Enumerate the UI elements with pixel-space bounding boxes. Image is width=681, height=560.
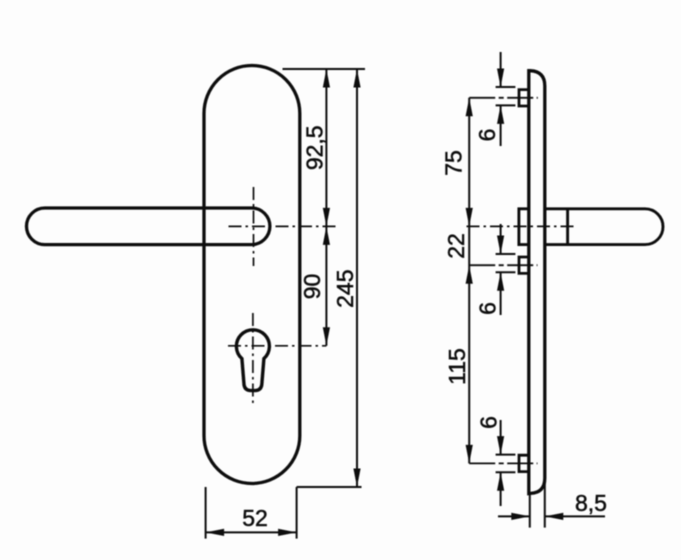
svg-text:52: 52 [242, 505, 268, 531]
svg-text:90: 90 [299, 274, 325, 300]
svg-text:75: 75 [441, 150, 467, 176]
svg-text:6: 6 [476, 416, 502, 429]
svg-text:6: 6 [474, 302, 500, 315]
svg-text:22: 22 [443, 233, 469, 259]
svg-text:8,5: 8,5 [575, 490, 607, 516]
svg-text:6: 6 [474, 129, 500, 142]
svg-text:92,5: 92,5 [301, 125, 327, 170]
svg-text:245: 245 [332, 270, 358, 308]
svg-text:115: 115 [444, 348, 470, 385]
